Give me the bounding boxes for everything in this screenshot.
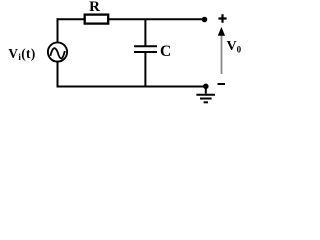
svg-text:V0: V0 xyxy=(227,39,242,54)
svg-text:Vi(t): Vi(t) xyxy=(8,46,35,62)
node: output top junction dot xyxy=(202,17,208,23)
label - (output negative) xyxy=(218,83,226,85)
capacitor C1 bottom plate xyxy=(134,51,157,53)
arrow for V0 (shaft) xyxy=(221,34,223,74)
source U1 (AC voltage source) xyxy=(48,42,67,61)
wire: left vertical top xyxy=(57,18,59,42)
wire: left vertical bottom xyxy=(57,62,59,88)
ground stub xyxy=(205,86,207,93)
wire: bottom horizontal xyxy=(57,86,206,88)
sine symbol inside source xyxy=(50,48,64,58)
ground bar 3 xyxy=(204,101,208,103)
ground bar 2 xyxy=(200,98,212,100)
wire: capacitor bottom lead xyxy=(144,52,146,87)
svg-text:R: R xyxy=(89,0,100,15)
node: bottom junction dot xyxy=(203,84,209,90)
resistor R1 xyxy=(85,15,109,24)
wire: capacitor top lead xyxy=(144,19,146,46)
ground bar 1 xyxy=(196,94,215,96)
label + (output positive) xyxy=(218,14,226,22)
wire: top horizontal left segment xyxy=(57,18,86,20)
svg-text:C: C xyxy=(160,43,171,60)
capacitor C1 top plate xyxy=(134,45,157,47)
arrow for V0 (head) xyxy=(219,28,225,35)
wire: top horizontal right segment xyxy=(108,18,205,20)
